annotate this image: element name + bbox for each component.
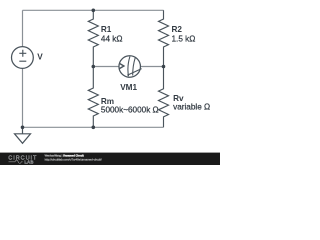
voltmeter VM1 — [119, 56, 142, 78]
svg-text:1.5 kΩ: 1.5 kΩ — [172, 34, 196, 43]
resistor R2 — [159, 10, 169, 66]
CircuitLab logo — [8, 156, 37, 165]
svg-text:http://circuitlab.com/c/7sr48e: http://circuitlab.com/c/7sr48e/unnamed-c… — [45, 157, 102, 161]
svg-text:R1: R1 — [101, 25, 112, 34]
wire middle left (node between R1 and Rm to meter) — [93, 66, 119, 68]
resistor Rv — [159, 67, 169, 128]
node junction R1/Rm/meter — [92, 65, 96, 69]
wire left column upper — [22, 10, 24, 47]
resistor R1 — [88, 10, 98, 66]
svg-text:44 kΩ: 44 kΩ — [101, 34, 123, 43]
resistor Rm — [88, 67, 98, 128]
wire top rail — [23, 9, 164, 11]
svg-text:VM1: VM1 — [120, 83, 137, 92]
ground — [15, 127, 31, 143]
wire middle right (meter to node between R2 and Rv) — [140, 66, 164, 68]
svg-text:variable Ω: variable Ω — [173, 103, 210, 112]
svg-text:V: V — [37, 52, 43, 61]
node junction bottom of Rm — [92, 126, 96, 130]
svg-text:LAB: LAB — [24, 160, 34, 165]
node junction R2/Rv/meter — [162, 65, 166, 69]
footer bar — [0, 153, 220, 165]
node junction top of R1 — [92, 9, 96, 13]
svg-text:5000k~6000k Ω: 5000k~6000k Ω — [101, 106, 159, 115]
svg-text:Rv: Rv — [173, 94, 184, 103]
svg-text:R2: R2 — [172, 25, 183, 34]
voltage source V1 — [12, 47, 34, 69]
node junction ground — [21, 126, 25, 130]
svg-text:Rm: Rm — [101, 97, 114, 106]
wire bottom rail — [23, 126, 164, 128]
wire left column lower — [22, 68, 24, 127]
